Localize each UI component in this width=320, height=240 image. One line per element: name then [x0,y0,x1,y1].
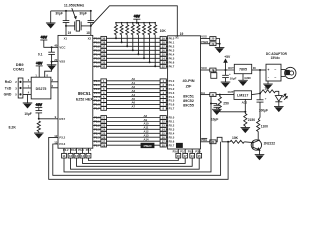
svg-text:P0.6: P0.6 [94,61,100,65]
svg-text:A4: A4 [132,93,136,97]
svg-text:COM1: COM1 [13,68,25,72]
svg-text:P1.1: P1.1 [94,83,100,87]
svg-text:A6: A6 [132,101,136,105]
resistor RN5 10K pull-up [137,22,140,55]
svg-text:1K: 1K [264,86,269,90]
regulator LM317 [228,90,252,100]
node ZIF bottom pin 14 [190,149,195,158]
resistor R3 2150 [244,112,256,128]
wire U2 RX to IC1 TXD [51,87,58,89]
svg-text:P3.4: P3.4 [188,149,194,153]
resistor RN4 10K pull-up [131,22,134,51]
resistor RN7 10K pull-up [148,22,151,63]
node RxD pin 2 [5,80,18,84]
svg-text:P3.3: P3.3 [71,148,77,152]
source DC adaptor 15V [266,52,288,60]
node IC1 pin 20 VSS [54,58,65,64]
svg-text:X2: X2 [88,36,92,40]
resistor RN6 10K pull-up [143,22,146,59]
ground R3 [241,128,251,133]
svg-text:30pF: 30pF [55,12,62,16]
ground 7805 GND pin [238,74,251,86]
svg-text:89C51: 89C51 [78,91,91,96]
svg-text:P1.1: P1.1 [169,83,175,87]
svg-text:P2.6: P2.6 [169,139,175,143]
node ZIF bottom pin 17 [183,149,188,158]
svg-text:13: 13 [75,154,79,158]
node IC1 pin 40 VCC [54,44,65,50]
svg-text:P0.4: P0.4 [94,53,100,57]
svg-text:P1.4: P1.4 [169,95,175,99]
svg-text:P2.5: P2.5 [94,135,100,139]
svg-text:RST: RST [59,117,65,121]
wire GND from DB9 [23,94,31,103]
resistor R1 8.2K [9,121,41,133]
svg-text:P0.0: P0.0 [94,37,100,41]
svg-text:DS275: DS275 [36,87,47,91]
wire pull-up bus rail [116,22,155,24]
svg-text:P1.7: P1.7 [94,107,100,111]
ground DC adaptor [263,81,273,89]
svg-text:PSEN: PSEN [201,41,208,44]
resistor R5 1100 [257,120,269,132]
svg-text:RxD: RxD [5,80,12,84]
svg-text:+5V: +5V [41,36,48,40]
node IC1 bottom pin 14 [80,148,85,158]
svg-text:P0.7: P0.7 [94,65,100,69]
ground IC1 VSS [47,65,57,70]
svg-text:IN: IN [253,66,256,70]
wire P0.1 bus row [93,40,175,44]
svg-text:X1: X1 [175,36,179,40]
capacitor C1 30pF [55,11,69,26]
svg-text:PSEN: PSEN [144,144,152,148]
svg-text:P2.4: P2.4 [94,132,100,136]
capacitor C6 10uF on EA line [210,103,220,122]
resistor R6 10K base [230,136,253,143]
svg-text:P1.6: P1.6 [94,103,100,107]
svg-text:VCC: VCC [59,45,65,49]
ground reset resistor [34,133,44,138]
node badge inside ZIF [176,143,182,147]
svg-text:P2.7: P2.7 [169,143,175,147]
resistor R4 1K [260,86,279,95]
svg-text:P2.3: P2.3 [169,128,175,132]
resistor R2 250 ohm [218,95,229,112]
svg-text:LM317: LM317 [237,93,248,97]
svg-text:P3.5: P3.5 [195,149,201,153]
svg-text:P1.2: P1.2 [169,87,175,91]
wire P3.3 to transistor base node [49,137,229,179]
wire emitter to ground [259,150,261,155]
wire reset node to IC1 pin 9 RST [38,115,66,121]
wire P2.1 bus row A9 [93,118,175,124]
wire P3.2 to PROG pulse node [53,142,221,176]
node ZIF pin 29 PSEN [201,41,217,46]
svg-text:P0.1: P0.1 [169,41,175,45]
wire P0.4 bus row [93,52,175,56]
svg-text:P2.7: P2.7 [94,143,100,147]
wire P2.0 bus row A8 [93,114,175,120]
wire P3 link IC1-13 to ZIF-14 [77,158,193,166]
resistor RN3 10K pull-up [126,22,129,47]
svg-text:18: 18 [86,31,90,35]
wire P1.3 bus row A3 [93,89,175,95]
node ZIF pin 31 EA [201,91,217,97]
svg-text:A10: A10 [144,122,150,126]
svg-text:GND: GND [4,93,12,97]
svg-text:10µF: 10µF [24,112,31,116]
wire P0.7 bus row [93,64,175,68]
svg-text:A5: A5 [132,97,136,101]
svg-text:A14: A14 [144,138,150,142]
wire XTAL2 to IC1 pin 18 [86,26,91,36]
svg-text:P2.6: P2.6 [94,139,100,143]
svg-text:40: 40 [54,44,58,48]
svg-text:P1.0: P1.0 [94,79,100,83]
regulator 7805 [228,64,256,73]
svg-text:A9: A9 [144,118,148,122]
svg-text:GND: GND [244,76,250,80]
wire P3 link IC1-15 to ZIF-16 [89,158,179,161]
svg-text:P2.0: P2.0 [169,116,175,120]
svg-text:X1: X1 [64,36,68,40]
wire P0.6 bus row [93,60,175,64]
svg-text:TxD: TxD [5,86,12,90]
wire P2.4 bus row A12 [93,130,175,136]
svg-text:10µF: 10µF [211,118,218,122]
svg-text:P0.5: P0.5 [169,57,175,61]
svg-text:P0.3: P0.3 [169,49,175,53]
svg-text:15Vdc: 15Vdc [271,56,281,60]
diode D1 on VCC line [211,70,217,78]
svg-text:16: 16 [177,154,181,158]
svg-text:P3.2: P3.2 [59,135,65,139]
capacitor C2 30pF [79,11,94,26]
svg-text:17: 17 [184,154,188,158]
wire IC1 VSS to ground [51,61,58,65]
node ZIF bottom pin 15 [197,149,202,158]
wire P0.3 bus row [93,48,175,52]
svg-text:A1: A1 [132,81,136,85]
svg-text:P0.5: P0.5 [94,57,100,61]
wire ground rail over crystal caps [51,10,92,12]
svg-text:P0.2: P0.2 [94,45,100,49]
ground C6 [212,109,222,114]
svg-text:P0.3: P0.3 [94,49,100,53]
LED indicator [275,94,287,107]
svg-text:A8: A8 [144,114,148,118]
svg-text:8.2K: 8.2K [9,125,17,129]
svg-text:ZIF: ZIF [186,84,192,88]
svg-text:P2.1: P2.1 [169,120,175,124]
node GND pin 5 [4,93,18,97]
svg-text:EZ52 HEX: EZ52 HEX [76,97,93,101]
connector DC jack [285,67,296,78]
wire P0.0 bus row [93,36,175,40]
svg-text:11.0592MHz: 11.0592MHz [64,4,85,8]
ground emitter [255,155,265,160]
wire RxD to U2 [23,81,31,83]
wire U2 pin8 to VCC rail [45,62,52,78]
svg-text:2150: 2150 [248,118,256,122]
svg-text:P1.3: P1.3 [94,91,100,95]
svg-text:19: 19 [68,31,72,35]
svg-text:+: + [265,97,267,101]
op U2 DS275 RS-232 interface [28,75,54,99]
svg-text:14: 14 [191,154,195,158]
wire P3 link IC1-12 to ZIF-15 [71,158,200,169]
wire ADJ rail [220,111,247,113]
crystal X1 11.0592MHz label [64,4,85,8]
svg-text:P2.3: P2.3 [94,128,100,132]
wire U2 TX to IC1 RXD [51,81,58,83]
transistor Q1 2N2222 [251,140,275,151]
wire P2.6 bus row A14 [93,138,175,144]
svg-text:A12: A12 [144,130,150,134]
svg-text:P2.2: P2.2 [169,124,175,128]
svg-text:A0: A0 [132,77,136,81]
+5V supply for reset [35,103,42,110]
svg-text:~: ~ [274,68,276,72]
svg-text:P0.6: P0.6 [169,61,175,65]
svg-text:30pF: 30pF [79,12,86,16]
svg-text:DB9: DB9 [16,63,24,67]
resistor RN1 10K pull-up [115,22,118,39]
svg-text:40-PIN: 40-PIN [183,79,195,83]
svg-text:0.1: 0.1 [38,52,43,56]
svg-text:~: ~ [274,76,276,80]
svg-text:11: 11 [63,154,66,158]
svg-text:P2.2: P2.2 [94,124,100,128]
svg-text:P1.4: P1.4 [94,95,100,99]
node LM317 ADJ pin [242,99,248,111]
svg-text:A13: A13 [144,134,150,138]
connector DB9 COM1 label [13,63,25,72]
svg-text:P1.0: P1.0 [169,79,175,83]
svg-text:P0.1: P0.1 [94,41,100,45]
label 10K for resistor network [160,29,167,33]
svg-text:P0.0: P0.0 [169,37,175,41]
capacitor C4 10uF reset [24,111,42,119]
svg-text:ADJ: ADJ [242,100,248,104]
op IC1 89C51 master controller box [58,35,93,148]
svg-text:14: 14 [81,154,85,158]
wire TxD to U2 [23,87,31,89]
svg-text:1100: 1100 [261,125,268,129]
svg-text:250: 250 [223,102,229,106]
wire P1.1 bus row A1 [93,81,175,87]
ground DB9 [23,103,33,108]
wire P2.7 bus row A15 [93,143,175,147]
node IC1 bottom pin 12 [68,148,73,158]
+5V flag at 7805 output [224,55,231,59]
wire P0.5 bus row [93,56,175,60]
node PSEN inverted badge on bus [141,143,154,148]
wire clock to ZIF pin 19 (X1) [91,6,184,37]
node ZIF pin 30 PROG [201,138,217,144]
svg-text:P0.7: P0.7 [169,65,175,69]
svg-text:P1.3: P1.3 [169,91,175,95]
svg-text:+: + [267,68,269,72]
wire P3 link IC1-11 to EA node [64,97,211,172]
svg-text:A11: A11 [144,126,149,130]
ground ZIF VSS/PSEN [215,48,225,53]
+5V supply for pull-up resistor network [133,14,140,23]
svg-text:15: 15 [198,154,202,158]
svg-text:P1.6: P1.6 [169,103,175,107]
svg-text:+5V: +5V [36,103,43,107]
wire P2.5 bus row A13 [93,134,175,140]
svg-text:P3.6: P3.6 [173,149,179,153]
svg-text:+: + [229,72,231,76]
node IC1 bottom pin 11 [62,148,67,158]
node IC1 pin 12 P3.2 [54,134,65,140]
annotation arrow to crystal [72,8,77,19]
wire adaptor to jack [281,70,285,77]
capacitor C3 0.1uF bypass [38,46,55,61]
label IC1 bottom P3 names [63,148,92,152]
svg-text:P2.4: P2.4 [169,132,175,136]
wire LM317 OUT to EA node [216,94,234,96]
svg-text:P2.1: P2.1 [94,120,100,124]
node ZIF bottom pin 16 [176,149,181,158]
wire P1.0 bus row A0 [93,77,175,83]
wire XTAL1 to IC1 pin 19 [66,26,71,36]
crystal X1 symbol [65,21,92,31]
svg-text:OUT: OUT [228,90,234,94]
wire P2.2 bus row A10 [93,122,175,128]
svg-text:P3.4: P3.4 [78,148,84,152]
+5V supply for IC1 VCC [40,36,58,48]
svg-text:100µF: 100µF [259,109,268,113]
svg-text:P2.0: P2.0 [94,116,100,120]
wire P1.6 bus row A6 [93,101,175,107]
svg-text:+5V: +5V [224,55,231,59]
socket ZIF 40-pin box [168,36,201,149]
label ZIF bottom P3 names [173,149,202,153]
node ZIF pin 40 VCC [201,66,217,72]
wire P1.7 bus row A7 [93,105,175,111]
svg-text:89C52: 89C52 [183,99,194,103]
svg-text:P0.2: P0.2 [169,45,175,49]
svg-text:+5V: +5V [36,62,43,66]
svg-text:89C51: 89C51 [183,94,194,98]
wire P3 link IC1-14 to ZIF-17 [83,158,186,163]
wire P1.4 bus row A4 [93,93,175,99]
node PROG pulse symbol [216,137,230,142]
resistor RN8 10K pull-up [154,22,157,67]
node IC1 bottom pin 15 [86,148,91,158]
svg-text:10K: 10K [232,136,239,140]
svg-text:15: 15 [87,154,91,158]
resistor RN2 10K pull-up [120,22,123,43]
svg-text:2N2222: 2N2222 [264,142,276,146]
node ZIF pin 20 VSS [201,35,217,41]
svg-text:P1.7: P1.7 [169,107,175,111]
connector DB9 body [18,78,23,98]
svg-text:A3: A3 [132,89,136,93]
svg-text:A7: A7 [132,105,136,109]
wire IN rail down to LM317 [259,70,261,95]
ground for crystal capacitors [46,11,56,28]
svg-text:P1.5: P1.5 [94,99,100,103]
svg-text:EA: EA [201,91,205,95]
svg-text:10µF: 10µF [230,76,237,80]
svg-text:10K: 10K [160,29,167,33]
svg-text:OUT: OUT [228,66,234,70]
capacitor C5 10uF at 7805 output [222,70,236,82]
svg-text:89C55: 89C55 [183,104,194,108]
svg-text:P2.5: P2.5 [169,135,175,139]
wire P1.5 bus row A5 [93,97,175,103]
svg-text:12: 12 [69,154,73,158]
ground C5 [221,82,231,87]
wire P0.2 bus row [93,44,175,48]
svg-text:+5V: +5V [134,14,141,18]
svg-text:A2: A2 [132,85,136,89]
wire P2.3 bus row A11 [93,126,175,132]
wire LM317 right to IN rail [252,94,261,95]
svg-text:P3.3: P3.3 [59,142,65,146]
svg-text:P1.5: P1.5 [169,99,175,103]
svg-text:VSS: VSS [201,35,207,39]
+5V supply for U2 [36,62,43,78]
svg-text:VCC: VCC [201,66,207,70]
node IC1 pin 13 P3.3 [54,141,65,147]
svg-text:P0.4: P0.4 [169,53,175,57]
svg-text:7805: 7805 [239,67,247,71]
ground LED [274,107,284,112]
svg-text:P1.2: P1.2 [94,87,100,91]
node TxD pin 3 [5,86,18,90]
capacitor C7 100uF [257,94,268,120]
wire collector to R5 [257,132,259,141]
svg-text:VSS: VSS [59,60,65,64]
node IC1 bottom pin 13 [74,148,79,158]
wire P1.2 bus row A2 [93,85,175,91]
wire 7805 IN to adaptor [252,69,266,71]
